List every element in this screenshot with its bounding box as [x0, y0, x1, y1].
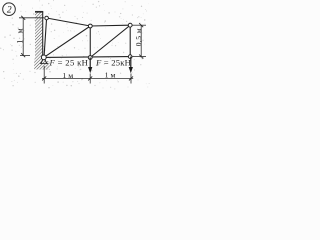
svg-text:F = 25кН: F = 25кН	[95, 57, 131, 67]
svg-text:1 м: 1 м	[105, 70, 116, 79]
svg-text:2: 2	[7, 5, 12, 15]
svg-text:0,5 м: 0,5 м	[134, 28, 143, 46]
svg-text:F = 25 кН: F = 25 кН	[49, 57, 89, 67]
svg-text:1 м: 1 м	[62, 71, 73, 80]
svg-text:1 м: 1 м	[16, 26, 25, 44]
